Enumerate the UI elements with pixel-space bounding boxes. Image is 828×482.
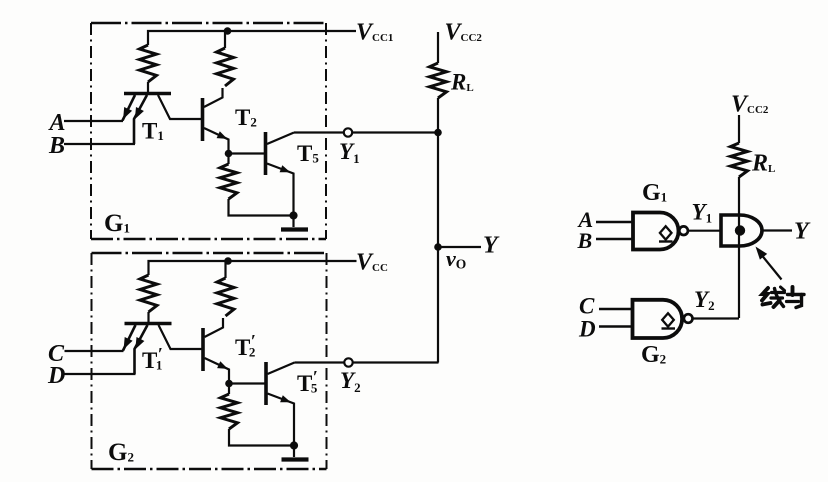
svg-text:B: B <box>577 228 593 253</box>
svg-text:C: C <box>579 294 595 319</box>
svg-text:Y: Y <box>794 219 811 245</box>
svg-text:Y: Y <box>483 233 500 259</box>
svg-text:D: D <box>578 317 596 342</box>
svg-text:T′1: T′1 <box>142 344 163 373</box>
svg-text:B: B <box>48 133 65 159</box>
svg-text:T′5: T′5 <box>297 367 318 396</box>
svg-text:D: D <box>47 363 65 389</box>
svg-text:T′2: T′2 <box>235 331 256 360</box>
